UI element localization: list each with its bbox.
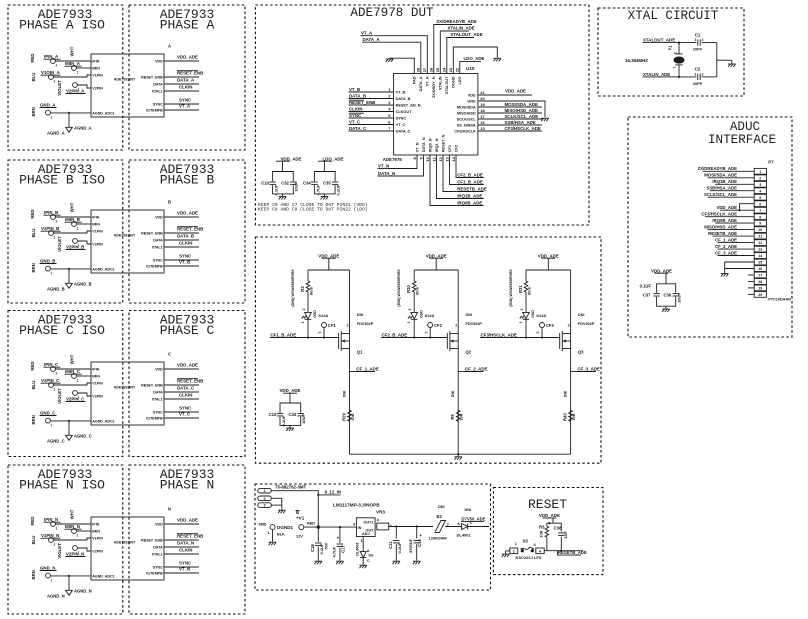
- svg-text:B: B: [168, 200, 171, 205]
- connector jack IPIN_N: [51, 522, 56, 527]
- svg-text:10K: 10K: [459, 413, 464, 420]
- svg-text:1: 1: [77, 379, 79, 383]
- wire down to AGND_C: [68, 421, 70, 435]
- svg-text:1: 1: [695, 73, 697, 77]
- svg-text:10K: 10K: [350, 413, 355, 420]
- svg-text:CF3: CF3: [546, 323, 555, 328]
- svg-text:V1PIN_B: V1PIN_B: [41, 226, 59, 231]
- svg-text:18: 18: [758, 280, 762, 284]
- svg-text:80.6: 80.6: [415, 286, 420, 295]
- svg-text:SYNC: SYNC: [396, 116, 407, 120]
- svg-text:2: 2: [674, 52, 678, 54]
- svg-text:IPIN: IPIN: [92, 215, 99, 219]
- svg-text:SCLK/SCL: SCLK/SCL: [457, 117, 477, 121]
- wire rail Q3: [526, 269, 571, 271]
- connector jack GND_N: [46, 573, 51, 578]
- wire P7 pin 6 to pin 7 VDD: [740, 204, 755, 211]
- ground under C17: [336, 560, 344, 562]
- svg-text:PHASE C ISO: PHASE C ISO: [19, 323, 105, 338]
- LED DS1: [305, 312, 312, 319]
- resistor R2 80.6: [307, 270, 309, 281]
- output net CF_3_ADE: [571, 371, 577, 373]
- ground XTAL: [728, 63, 736, 65]
- svg-text:PHASE B ISO: PHASE B ISO: [19, 173, 105, 188]
- junction at AGND_B drop: [68, 268, 70, 270]
- ground at S3: [502, 553, 510, 555]
- svg-text:CLKIN: CLKIN: [179, 241, 192, 246]
- net CF3/HSCLK_ADE: [478, 130, 504, 132]
- svg-text:20PF: 20PF: [693, 47, 703, 52]
- wire S3 to ground: [506, 550, 510, 552]
- svg-text:K24A: K24A: [537, 314, 547, 318]
- svg-text:2: 2: [702, 73, 704, 77]
- svg-text:BLU: BLU: [31, 229, 36, 238]
- connector jack IPIN_C: [51, 367, 56, 372]
- svg-text:4: 4: [539, 549, 541, 553]
- svg-text:2: 2: [390, 524, 392, 528]
- svg-text:KSC222J LFS: KSC222J LFS: [516, 555, 542, 560]
- svg-text:MISO/HSD_ADE: MISO/HSD_ADE: [704, 225, 737, 230]
- wire drain Q3 down: [570, 349, 572, 455]
- svg-text:SYNC: SYNC: [153, 258, 163, 262]
- svg-text:XTAL1: XTAL1: [152, 245, 163, 249]
- wire rail Q2: [414, 269, 458, 271]
- svg-text:C1: C1: [695, 32, 701, 37]
- svg-text:KEEP C8 AND C9 CLOSE TO DUT PI: KEEP C8 AND C9 CLOSE TO DUT PIN22 (LDO): [258, 207, 368, 213]
- dashed box ADE7933 PHASE N ISO: [8, 465, 123, 614]
- svg-text:C32: C32: [281, 180, 289, 185]
- net CF_3_ADE to P7 pin 14: [738, 255, 755, 257]
- svg-text:SYNC: SYNC: [179, 406, 192, 411]
- wire down to AGND_N: [68, 576, 70, 590]
- svg-text:ADE7933INT: ADE7933INT: [114, 78, 136, 82]
- svg-text:PHASE A: PHASE A: [160, 18, 215, 33]
- connector jack GND_B: [46, 266, 51, 271]
- svg-text:5: 5: [536, 331, 540, 333]
- svg-text:DATA: DATA: [153, 390, 163, 394]
- svg-text:16: 16: [758, 267, 762, 271]
- svg-text:SCLK/SCL_ADE: SCLK/SCL_ADE: [704, 192, 737, 197]
- dashed box ADE7933 PHASE A: [129, 5, 245, 150]
- svg-text:RESET_N: RESET_N: [441, 134, 445, 152]
- svg-text:R31: R31: [518, 284, 523, 292]
- svg-text:C17: C17: [340, 544, 345, 552]
- svg-text:15: 15: [758, 261, 762, 265]
- svg-text:1: 1: [56, 372, 58, 376]
- svg-text:RESETB_ADE: RESETB_ADE: [708, 231, 737, 236]
- wire IPIN_N to IPIN: [55, 523, 91, 525]
- svg-text:2: 2: [513, 549, 515, 553]
- net DATA_A: [164, 83, 199, 85]
- svg-text:ADE7978 DUT: ADE7978 DUT: [350, 6, 434, 20]
- svg-text:11: 11: [431, 156, 436, 161]
- svg-text:1: 1: [54, 80, 56, 84]
- svg-text:IPIN_C: IPIN_C: [44, 362, 59, 367]
- svg-text:0.1UF: 0.1UF: [319, 543, 324, 554]
- svg-text:SYNC: SYNC: [179, 98, 192, 103]
- net DATA_C: [164, 391, 199, 393]
- svg-text:1: 1: [51, 578, 53, 582]
- connector jack V2PIN_C: [73, 391, 78, 396]
- svg-text:N: N: [168, 507, 171, 512]
- wire VR3 OUT to E2: [389, 526, 433, 528]
- svg-text:1: 1: [77, 534, 79, 538]
- svg-text:CF3/HSCLK_ADE: CF3/HSCLK_ADE: [505, 126, 541, 131]
- svg-text:V2TEMPB: V2TEMPB: [146, 264, 163, 268]
- transistor Q3 FDV302P PMOS: [559, 333, 561, 349]
- crystal Y1 16.384MHZ: [678, 42, 680, 44]
- svg-text:PHASE N: PHASE N: [160, 478, 215, 493]
- svg-text:1: 1: [268, 531, 270, 535]
- svg-text:2: 2: [702, 38, 704, 42]
- net MOSI/SDA_ADE: [478, 106, 504, 108]
- svg-text:GND_B: GND_B: [40, 259, 55, 264]
- svg-text:AGND_ADC1: AGND_ADC1: [92, 574, 114, 578]
- net IRQ1B_ADE to P7 pin 3: [738, 183, 755, 185]
- svg-text:C10: C10: [269, 412, 277, 417]
- svg-text:IPIN_N: IPIN_N: [44, 517, 58, 522]
- isolated ADC U_C ADE7933 body: [91, 362, 164, 425]
- svg-text:CF2_B_ADE: CF2_B_ADE: [457, 172, 483, 177]
- wire IMIN_N to IMIN: [76, 530, 91, 532]
- svg-text:V2TEMPB: V2TEMPB: [146, 571, 163, 575]
- wire V2PIN_A to V2PIN: [77, 85, 91, 88]
- dashed box CF buffers: [255, 237, 601, 463]
- output tie box VR3: [377, 523, 389, 530]
- ground at CF rail: [457, 453, 459, 455]
- wire down to AGND_A: [68, 113, 70, 127]
- svg-text:OUT1: OUT1: [363, 520, 373, 524]
- svg-text:10: 10: [425, 156, 430, 161]
- dashed box ADE7933 PHASE N: [129, 465, 245, 614]
- svg-text:0.1UF: 0.1UF: [281, 415, 286, 426]
- wire IMIN_A to IMIN: [76, 67, 91, 69]
- svg-text:AGND_B: AGND_B: [47, 287, 65, 292]
- net CF_2_ADE to P7 pin 13: [738, 248, 755, 250]
- net CF3/HSCLK_ADE to P7 pin 8: [738, 216, 755, 218]
- svg-text:C34: C34: [303, 180, 311, 185]
- svg-text:24: 24: [442, 67, 447, 72]
- svg-text:R40: R40: [563, 412, 568, 420]
- svg-text:DNI: DNI: [465, 508, 472, 512]
- wire reset RC top: [547, 522, 561, 524]
- svg-text:IRQ1_N: IRQ1_N: [435, 138, 439, 152]
- wire joining C1 C2: [716, 43, 718, 77]
- svg-text:26: 26: [429, 67, 434, 72]
- svg-text:V2PIN_C: V2PIN_C: [66, 397, 85, 402]
- connector jack V2PIN_A: [73, 83, 78, 88]
- net 9_12_IN: [318, 494, 340, 496]
- net IRQ0B_ADE to P7 pin 9: [738, 222, 755, 224]
- transistor Q2 FDV302P PMOS: [446, 333, 448, 349]
- net MISO/HSD_ADE: [478, 112, 504, 114]
- svg-text:2: 2: [455, 323, 457, 327]
- svg-text:VDD_ADE: VDD_ADE: [539, 513, 560, 518]
- wire GND_A to AGND_ADC1: [50, 112, 91, 114]
- svg-text:CF_2_ADE: CF_2_ADE: [465, 366, 488, 371]
- svg-text:C35: C35: [323, 180, 331, 185]
- svg-text:CLKIN: CLKIN: [179, 548, 192, 553]
- svg-text:1: 1: [51, 423, 53, 427]
- connector jack IMIN_A: [72, 66, 77, 71]
- ground AGND_B triangle: [66, 283, 73, 288]
- svg-text:XTALOUT: XTALOUT: [445, 76, 449, 94]
- svg-text:A: A: [457, 522, 460, 526]
- svg-text:IPIN_B: IPIN_B: [44, 210, 58, 215]
- svg-text:D6: D6: [369, 553, 374, 557]
- svg-text:RESETB_ADE: RESETB_ADE: [558, 550, 587, 555]
- ground under C19 C32: [279, 196, 287, 198]
- wire U10 to net CF1_B_ADE: [450, 155, 457, 185]
- svg-text:1: 1: [759, 170, 761, 174]
- svg-text:80.6: 80.6: [309, 286, 314, 295]
- svg-text:2: 2: [447, 523, 449, 527]
- svg-text:1: 1: [54, 543, 56, 547]
- svg-text:0.1UF: 0.1UF: [397, 542, 402, 553]
- wire E2 to D7: [445, 526, 461, 528]
- svg-text:PHASE C: PHASE C: [160, 323, 215, 338]
- ground under C37 C36: [662, 308, 670, 310]
- svg-text:DNI: DNI: [343, 391, 347, 398]
- svg-text:DNI: DNI: [438, 505, 445, 509]
- svg-text:E2: E2: [437, 514, 443, 519]
- svg-text:1: 1: [77, 71, 79, 75]
- svg-text:V2PIN_N: V2PIN_N: [66, 552, 84, 557]
- svg-text:SMD: SMD: [259, 523, 267, 527]
- capacitor C14 470UF: [416, 525, 418, 527]
- svg-text:5: 5: [424, 331, 428, 333]
- svg-text:WHT: WHT: [69, 354, 74, 364]
- svg-text:C: C: [367, 559, 370, 563]
- svg-text:XTALIN_ADE: XTALIN_ADE: [643, 72, 670, 77]
- svg-text:1UF: 1UF: [563, 531, 568, 539]
- stub P7 pin 17: [748, 274, 754, 276]
- svg-text:5: 5: [759, 196, 761, 200]
- resistor pulldown at Q3 10K: [569, 410, 573, 421]
- U10 pin 21 VDD net VDD_ADE: [478, 94, 532, 96]
- svg-text:IMIN_A: IMIN_A: [65, 61, 81, 66]
- transistor Q1 FDV302P PMOS: [338, 333, 340, 349]
- svg-text:VDD: VDD: [155, 215, 163, 219]
- svg-text:1: 1: [56, 64, 58, 68]
- ground under C14: [413, 560, 421, 562]
- svg-text:10K: 10K: [571, 413, 576, 420]
- svg-text:R2: R2: [300, 286, 305, 292]
- svg-text:13: 13: [758, 248, 762, 252]
- svg-text:D7V50_ADE: D7V50_ADE: [462, 516, 486, 521]
- net SYNC phase A: [164, 103, 199, 105]
- isolated ADC U_N ADE7933 body: [91, 517, 164, 580]
- svg-text:0.1UF: 0.1UF: [335, 184, 340, 195]
- dashed box XTAL CIRCUIT: [598, 8, 744, 96]
- svg-text:MOSI/SDA_ADE: MOSI/SDA_ADE: [704, 173, 737, 178]
- isolated ADC U_A ADE7933 body: [91, 54, 164, 117]
- svg-text:BRN: BRN: [31, 570, 36, 579]
- svg-text:RESET_EN_N: RESET_EN_N: [396, 103, 421, 107]
- svg-text:SYNC: SYNC: [153, 565, 163, 569]
- svg-text:GND_N: GND_N: [40, 566, 55, 571]
- svg-text:AGND_C: AGND_C: [47, 439, 65, 444]
- diode D6 DL4001 at VR3 ADJ: [362, 537, 364, 552]
- svg-text:4.7UF: 4.7UF: [331, 546, 336, 557]
- svg-text:CF1: CF1: [328, 323, 337, 328]
- svg-text:MISO/HSD_ADE: MISO/HSD_ADE: [505, 108, 538, 113]
- svg-text:FDV302P: FDV302P: [466, 322, 483, 326]
- svg-text:WHT: WHT: [69, 202, 74, 212]
- svg-text:R30: R30: [406, 284, 411, 292]
- svg-text:27: 27: [422, 67, 427, 72]
- net D7V50_ADE: [468, 526, 489, 528]
- svg-text:GND_C: GND_C: [40, 411, 56, 416]
- svg-text:20: 20: [480, 96, 485, 101]
- net CLKIN phase N: [164, 553, 199, 555]
- svg-text:(DNI) WSN5980R0R6: (DNI) WSN5980R0R6: [397, 269, 401, 306]
- wire GND_C to AGND_ADC1: [50, 420, 91, 422]
- svg-text:V1OIN_A: V1OIN_A: [41, 70, 61, 75]
- net RESET_ENB phase B: [164, 232, 199, 234]
- wire IPIN_B to IPIN: [55, 216, 91, 218]
- svg-text:DNI: DNI: [564, 391, 568, 398]
- testpoint CF3: [540, 323, 545, 328]
- U10 DGND pin 23 wire to ground: [453, 47, 497, 74]
- svg-text:20: 20: [758, 293, 762, 297]
- svg-text:VDD_ADE: VDD_ADE: [716, 205, 737, 210]
- svg-text:0.1UF: 0.1UF: [640, 284, 652, 289]
- svg-text:BLU: BLU: [31, 381, 36, 390]
- svg-text:IPIN: IPIN: [92, 59, 99, 63]
- svg-text:2: 2: [568, 323, 570, 327]
- svg-text:CLKIN: CLKIN: [179, 85, 192, 90]
- dashed box ADE7933 PHASE B ISO: [8, 160, 123, 303]
- svg-text:VT_B: VT_B: [179, 260, 190, 265]
- svg-text:DNI: DNI: [466, 313, 473, 317]
- svg-text:VT_B: VT_B: [396, 90, 406, 94]
- testpoint DGND1: [270, 525, 275, 530]
- svg-text:Q1: Q1: [357, 349, 363, 354]
- ground under C34 C35: [321, 196, 329, 198]
- svg-text:VT_C: VT_C: [396, 123, 406, 127]
- svg-text:Q2: Q2: [466, 349, 472, 354]
- ground AGND_C triangle: [66, 435, 73, 440]
- svg-text:10UF: 10UF: [301, 414, 306, 424]
- svg-text:VDD_ADE: VDD_ADE: [177, 211, 198, 216]
- junction at AGND_C drop: [68, 420, 70, 422]
- svg-text:1: 1: [301, 322, 305, 324]
- svg-text:MOSI/SDA: MOSI/SDA: [457, 105, 476, 109]
- svg-text:1: 1: [407, 322, 411, 324]
- svg-text:V1PIN: V1PIN: [92, 536, 103, 540]
- svg-text:OSD: OSD: [531, 310, 535, 318]
- svg-text:R29: R29: [342, 412, 347, 420]
- svg-text:8: 8: [412, 156, 417, 159]
- svg-text:V2PIN_A: V2PIN_A: [66, 89, 85, 94]
- ground under C10 C33: [286, 427, 294, 429]
- net ZX/DREADYB_ADE to P7 pin 1: [738, 170, 755, 172]
- junction at AGND_N drop: [68, 575, 70, 577]
- svg-text:C11: C11: [388, 541, 393, 549]
- svg-text:4700UF: 4700UF: [408, 538, 413, 553]
- resistor pulldown at Q2 10K: [456, 410, 460, 421]
- svg-text:AGND_ADC1: AGND_ADC1: [92, 111, 114, 115]
- stub P7 pin 20: [748, 293, 754, 295]
- svg-text:28: 28: [416, 67, 421, 72]
- junction at AGND_A drop: [68, 112, 70, 114]
- svg-text:(DNI) WSN5980R0R6: (DNI) WSN5980R0R6: [291, 269, 295, 306]
- net SCLK/SCL_ADE: [478, 118, 504, 120]
- svg-text:VDD_ADE: VDD_ADE: [177, 55, 198, 60]
- svg-text:C37: C37: [643, 293, 651, 298]
- wire V1PIN_C to V1PIN: [53, 383, 91, 385]
- svg-text:XTALOUT_ADE: XTALOUT_ADE: [643, 38, 675, 43]
- svg-text:12: 12: [438, 156, 443, 161]
- svg-text:DATA_N: DATA_N: [177, 541, 194, 546]
- junction LED DS2 to input wire: [413, 336, 415, 338]
- wire crystal top to C1: [679, 42, 696, 44]
- ground under C16: [315, 560, 323, 562]
- svg-text:IRQ0_N: IRQ0_N: [428, 138, 432, 152]
- svg-text:XTAL1: XTAL1: [152, 552, 163, 556]
- dashed box ADE7978 DUT: [255, 5, 589, 225]
- svg-text:V2PIN_B: V2PIN_B: [66, 245, 84, 250]
- svg-text:VDD_ADE: VDD_ADE: [281, 156, 302, 161]
- net ZX/DREADYB_ADE U10 pin 26: [434, 25, 472, 74]
- svg-text:V2TEMPB: V2TEMPB: [146, 108, 163, 112]
- ground at DGND: [494, 57, 502, 59]
- connector jack IMIN_C: [72, 374, 77, 379]
- svg-text:DATA_N: DATA_N: [378, 171, 395, 176]
- svg-text:1: 1: [51, 115, 53, 119]
- wire GND_N to AGND_ADC1: [50, 575, 91, 577]
- diode D7 DL4001: [462, 524, 468, 530]
- svg-text:DATA_C: DATA_C: [177, 386, 195, 391]
- svg-text:VIOLET: VIOLET: [57, 388, 62, 404]
- svg-text:RESET: RESET: [528, 497, 567, 512]
- net CLKIN phase C: [164, 398, 199, 400]
- svg-text:15: 15: [480, 126, 485, 131]
- dashed box power supply: [255, 484, 491, 590]
- svg-text:VT_C: VT_C: [349, 119, 361, 124]
- svg-text:IMIN: IMIN: [92, 222, 100, 226]
- svg-text:1: 1: [695, 38, 697, 42]
- svg-text:U10: U10: [466, 66, 475, 71]
- dashed box ADE7933 PHASE C ISO: [8, 311, 123, 457]
- ground under D6: [359, 564, 367, 566]
- svg-text:19: 19: [480, 102, 485, 107]
- wire VDD net phase N: [164, 523, 199, 525]
- wire to XTAL ground: [717, 59, 732, 61]
- svg-text:VT_N: VT_N: [378, 163, 389, 168]
- net VT_B: [164, 265, 199, 267]
- wire V2PIN_N to V2PIN: [77, 548, 91, 551]
- resistor R3 10K: [546, 523, 548, 526]
- svg-text:V2PIN: V2PIN: [92, 549, 103, 553]
- svg-text:25: 25: [435, 67, 440, 72]
- svg-text:8: 8: [759, 215, 761, 219]
- svg-text:K24A: K24A: [319, 314, 329, 318]
- net LDO_ADE U10 pin 22: [460, 61, 481, 73]
- svg-text:VIOLET: VIOLET: [57, 543, 62, 559]
- svg-text:DATA_B: DATA_B: [396, 97, 411, 101]
- svg-text:16: 16: [480, 120, 485, 125]
- svg-text:ADJ: ADJ: [362, 532, 370, 536]
- svg-text:CF1_B_ADE: CF1_B_ADE: [457, 179, 483, 184]
- svg-text:CLKOUT: CLKOUT: [396, 110, 412, 114]
- svg-text:DATA_B: DATA_B: [177, 234, 194, 239]
- svg-text:ZX/DRDY_N: ZX/DRDY_N: [432, 76, 436, 98]
- svg-text:VT_A: VT_A: [361, 31, 373, 36]
- svg-text:VDD_ADE: VDD_ADE: [651, 268, 672, 273]
- svg-text:VDD: VDD: [155, 367, 163, 371]
